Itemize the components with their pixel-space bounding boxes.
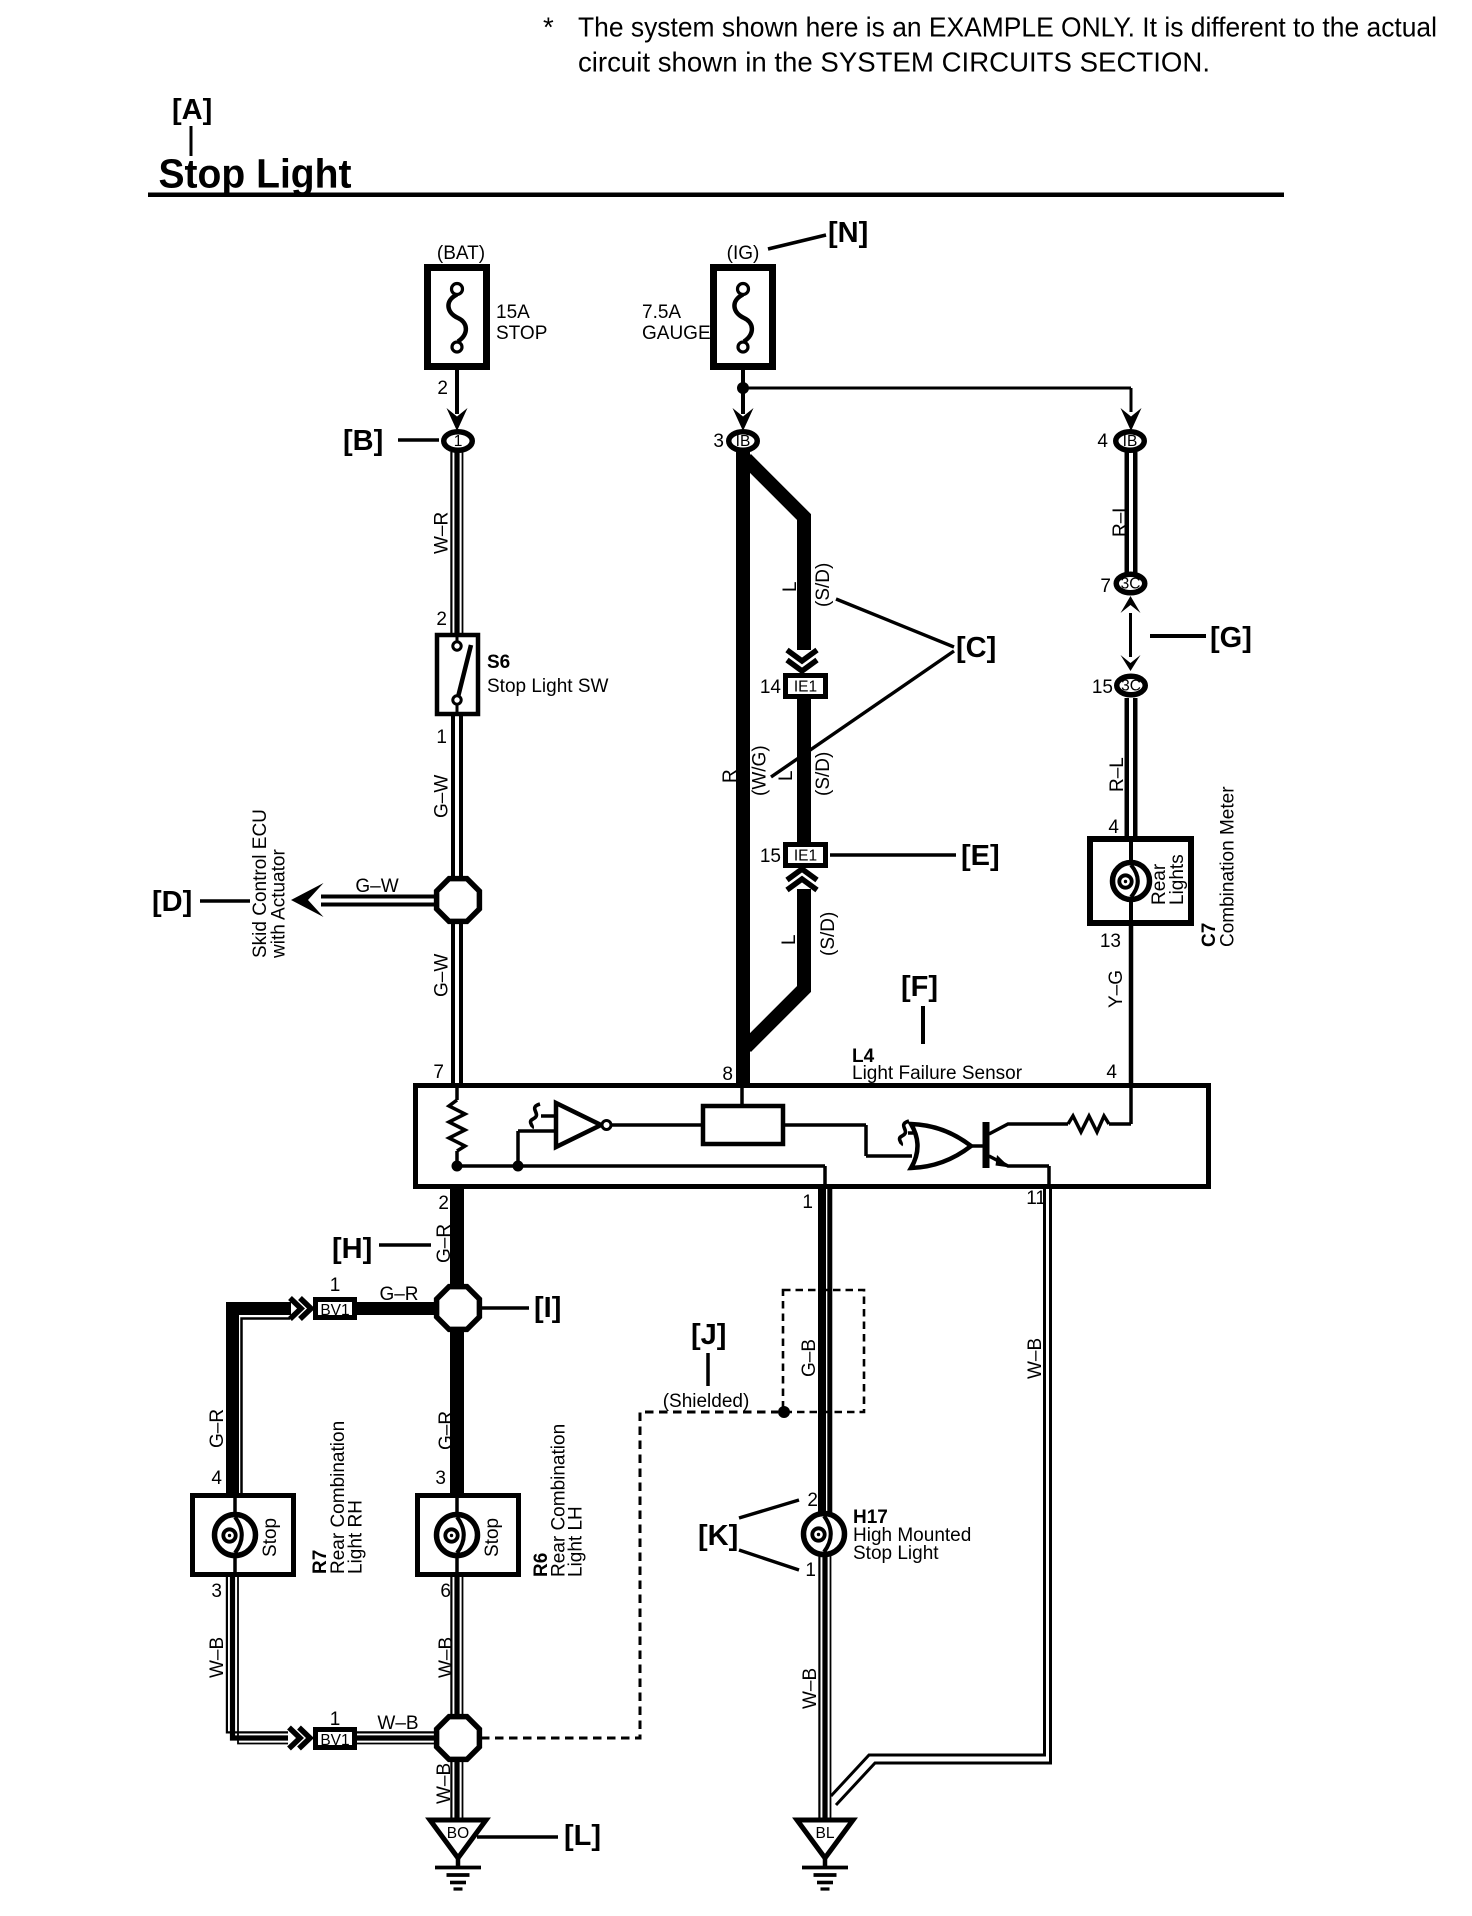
connector IE1 pin 14 xyxy=(760,676,826,699)
label [H] xyxy=(332,1233,431,1265)
svg-text:1: 1 xyxy=(330,1275,341,1296)
svg-text:3: 3 xyxy=(713,431,724,452)
svg-text:2: 2 xyxy=(807,1490,818,1511)
comparator (NOT gate) U1 xyxy=(518,1103,611,1166)
svg-text:W–B: W–B xyxy=(800,1668,821,1709)
rear combination light RH R7 (Stop bulb) xyxy=(193,1421,367,1575)
svg-text:(S/D): (S/D) xyxy=(813,563,834,607)
OR gate U2 xyxy=(900,1121,971,1168)
svg-text:G–B: G–B xyxy=(799,1339,820,1377)
svg-text:1: 1 xyxy=(436,727,447,748)
svg-text:(Shielded): (Shielded) xyxy=(663,1391,750,1412)
junction octagon I xyxy=(437,1287,480,1330)
svg-text:W–B: W–B xyxy=(434,1763,455,1804)
svg-text:G–W: G–W xyxy=(432,775,453,818)
svg-text:S6: S6 xyxy=(487,652,510,673)
label [E] xyxy=(830,840,1000,872)
arrow (double chevron) up into IE1 pin 15 xyxy=(787,879,817,890)
connector BV1 pin 1 (lower) xyxy=(316,1709,355,1749)
svg-text:W–B: W–B xyxy=(1025,1338,1046,1379)
logic block (rectangle) xyxy=(703,1088,783,1144)
light failure sensor L4 box xyxy=(416,1086,1209,1187)
svg-text:13: 13 xyxy=(1100,931,1121,952)
svg-text:1: 1 xyxy=(330,1709,341,1730)
ground junction octagon xyxy=(437,1717,480,1760)
svg-text:Light LH: Light LH xyxy=(566,1506,587,1577)
svg-text:Stop: Stop xyxy=(482,1518,503,1557)
connector 3C pin 7 xyxy=(1116,574,1145,593)
label [F] xyxy=(901,971,938,1044)
svg-text:Lights: Lights xyxy=(1167,854,1188,905)
svg-text:3: 3 xyxy=(435,1468,446,1489)
shield junction dot xyxy=(778,1406,790,1418)
transistor Q1 xyxy=(969,1122,1068,1186)
rear combination light LH R6 (Stop bulb) xyxy=(418,1424,587,1577)
svg-text:6: 6 xyxy=(440,1581,451,1602)
svg-text:W–B: W–B xyxy=(436,1637,457,1678)
svg-text:W–R: W–R xyxy=(432,512,453,554)
svg-text:(BAT): (BAT) xyxy=(437,243,485,264)
svg-text:[C]: [C] xyxy=(956,632,996,664)
wire G-R sensor pin 2 to octagon I xyxy=(434,1186,457,1286)
arrow down at 3C pin 15 xyxy=(1121,655,1141,671)
junction dot bottom rail left xyxy=(452,1161,463,1172)
label [J] (Shielded) xyxy=(663,1319,750,1412)
svg-text:R–L: R–L xyxy=(1110,502,1131,537)
svg-text:[J]: [J] xyxy=(691,1319,726,1351)
svg-text:[E]: [E] xyxy=(961,840,1000,872)
arrow (double chevron) into IE1 pin 14 xyxy=(787,650,817,661)
svg-text:R: R xyxy=(720,769,741,783)
label [I] xyxy=(482,1292,561,1324)
label [D] xyxy=(152,886,250,918)
svg-text:circuit shown in the SYSTEM CI: circuit shown in the SYSTEM CIRCUITS SEC… xyxy=(578,47,1210,78)
wire logic block to OR gate xyxy=(785,1123,866,1127)
svg-text:*: * xyxy=(543,12,554,43)
arrow chevrons into BV1 (lower) xyxy=(289,1728,300,1749)
wire W-B BV1 to ground octagon xyxy=(357,1713,437,1744)
arrow into connector 1 xyxy=(447,408,468,431)
svg-text:IB: IB xyxy=(1123,433,1138,450)
switch S6 Stop Light SW xyxy=(437,635,609,714)
wire fuse STOP pin 2 to connector 1 xyxy=(437,370,457,414)
svg-text:G–R: G–R xyxy=(207,1409,228,1448)
label [N] xyxy=(768,217,868,249)
svg-text:G–R: G–R xyxy=(436,1411,457,1450)
wire L (S/D) lower loop branch xyxy=(746,889,839,1047)
wire junction to right branch xyxy=(743,387,1131,390)
wire W-B R7 to BV1 (lower) xyxy=(207,1577,288,1744)
label [C] with pointer lines xyxy=(771,599,996,777)
svg-text:W–B: W–B xyxy=(377,1713,418,1734)
wire Y-G C7 to sensor pin 4 xyxy=(1106,923,1131,1084)
svg-text:Light Failure Sensor: Light Failure Sensor xyxy=(852,1063,1023,1084)
svg-text:(S/D): (S/D) xyxy=(813,752,834,796)
svg-text:L: L xyxy=(779,934,800,945)
wire W-R connector 1 to stop light switch xyxy=(432,452,463,634)
svg-text:G–W: G–W xyxy=(432,954,453,997)
ground BL xyxy=(797,1820,853,1858)
svg-text:with Actuator: with Actuator xyxy=(269,849,290,959)
svg-text:IB: IB xyxy=(736,433,751,450)
svg-text:15: 15 xyxy=(760,846,781,867)
shield drain dashed wire xyxy=(481,1412,778,1738)
svg-text:[I]: [I] xyxy=(534,1292,561,1324)
svg-text:2: 2 xyxy=(437,378,448,399)
svg-text:1: 1 xyxy=(454,433,463,450)
bottom rail to pin 1 xyxy=(457,1164,825,1168)
svg-text:15A: 15A xyxy=(496,302,530,323)
high mounted stop light H17 xyxy=(804,1507,972,1564)
wire W-B octagon to ground BO xyxy=(434,1760,463,1820)
arrow chevrons into BV1 xyxy=(290,1298,301,1319)
wire G-W arrow to Skid Control ECU xyxy=(250,809,436,959)
svg-text:Stop Light: Stop Light xyxy=(159,151,352,197)
fuse 15A STOP (BAT) xyxy=(428,243,548,367)
svg-text:IE1: IE1 xyxy=(794,679,817,696)
svg-text:Combination Meter: Combination Meter xyxy=(1218,786,1239,947)
wire fuse GAUGE to connector IB xyxy=(741,370,745,414)
wire G-B sensor pin 1 to H17 xyxy=(799,1186,830,1515)
svg-text:3: 3 xyxy=(211,1581,222,1602)
svg-text:Light RH: Light RH xyxy=(346,1500,367,1574)
svg-text:[K]: [K] xyxy=(698,1520,738,1552)
svg-text:The system shown here is an EX: The system shown here is an EXAMPLE ONLY… xyxy=(578,12,1437,43)
svg-text:(S/D): (S/D) xyxy=(818,912,839,956)
svg-text:BO: BO xyxy=(447,1825,469,1842)
svg-text:7.5A: 7.5A xyxy=(642,302,681,323)
resistor (sensing) at pin 7 xyxy=(449,1088,465,1166)
shield dashed box xyxy=(783,1290,864,1412)
svg-text:8: 8 xyxy=(722,1064,733,1085)
wire W-B R6 to ground octagon xyxy=(436,1577,463,1716)
svg-text:4: 4 xyxy=(1097,431,1108,452)
svg-text:1: 1 xyxy=(805,1560,816,1581)
svg-text:BV1: BV1 xyxy=(320,1302,349,1319)
svg-text:(IG): (IG) xyxy=(727,243,760,264)
svg-text:4: 4 xyxy=(211,1468,222,1489)
junction dot below IG fuse xyxy=(737,382,749,394)
wire G-R octagon I to R6 xyxy=(436,1330,457,1494)
svg-text:[A]: [A] xyxy=(172,94,212,126)
ground BO xyxy=(430,1820,486,1858)
svg-text:R–L: R–L xyxy=(1107,757,1128,792)
svg-text:2: 2 xyxy=(436,609,447,630)
arrow up at 3C pin 7 xyxy=(1121,596,1141,613)
svg-text:4: 4 xyxy=(1106,1062,1117,1083)
connector IE1 pin 15 xyxy=(760,845,826,868)
wire L (S/D) between IE1 connectors xyxy=(750,699,835,843)
connector IB pin 3 xyxy=(729,432,758,451)
wire R (thick) IB to sensor pin 8 xyxy=(720,452,743,1084)
svg-text:W–B: W–B xyxy=(207,1637,228,1678)
connector IB pin 4 xyxy=(1116,432,1145,451)
svg-text:STOP: STOP xyxy=(496,323,547,344)
svg-text:L: L xyxy=(780,581,801,592)
wire G-R octagon to BV1 xyxy=(357,1284,437,1309)
svg-text:Stop Light SW: Stop Light SW xyxy=(487,676,609,697)
wire W-B sensor pin 11 to ground BL xyxy=(831,1186,1051,1805)
arrow into connector IB (4) xyxy=(1121,408,1142,431)
wire G-W octagon to sensor pin 7 xyxy=(432,922,462,1084)
arrow into connector IB (3) xyxy=(733,408,754,431)
connector BV1 pin 1 (upper) xyxy=(316,1275,355,1319)
junction octagon (stop light feed) xyxy=(437,879,480,922)
svg-text:(W/G): (W/G) xyxy=(750,745,771,796)
svg-text:G–W: G–W xyxy=(355,876,398,897)
svg-text:BL: BL xyxy=(816,1825,835,1842)
label [G] xyxy=(1150,622,1252,654)
svg-text:3C: 3C xyxy=(1121,576,1141,593)
svg-text:G–R: G–R xyxy=(434,1224,455,1263)
wire between 3C connectors xyxy=(1129,613,1132,657)
label [K] with pointer lines xyxy=(698,1500,799,1570)
svg-text:[L]: [L] xyxy=(564,1820,601,1852)
wire L (S/D) upper loop branch xyxy=(746,459,834,650)
junction dot comparator input xyxy=(513,1161,524,1172)
svg-text:7: 7 xyxy=(433,1062,444,1083)
wire R-L 3C to combination meter xyxy=(1107,698,1135,837)
svg-text:7: 7 xyxy=(1100,576,1111,597)
svg-text:[N]: [N] xyxy=(828,217,868,249)
svg-text:Stop Light: Stop Light xyxy=(853,1543,939,1564)
svg-text:1: 1 xyxy=(802,1192,813,1213)
label [B] xyxy=(343,425,439,457)
svg-text:4: 4 xyxy=(1108,817,1119,838)
label [L] xyxy=(477,1820,601,1852)
connector 1 (B) xyxy=(444,432,473,451)
resistor at pin 4 xyxy=(1068,1088,1131,1132)
svg-text:Stop: Stop xyxy=(260,1518,281,1557)
fuse 7.5A GAUGE (IG) xyxy=(642,243,773,367)
connector 3C pin 15 xyxy=(1117,676,1146,695)
wire G-W switch to junction octagon xyxy=(432,716,462,879)
combination meter C7 with Rear Lights bulb xyxy=(1090,786,1239,947)
wire NOT output to logic block xyxy=(611,1123,701,1127)
svg-text:Y–G: Y–G xyxy=(1106,970,1127,1008)
svg-text:[D]: [D] xyxy=(152,886,192,918)
svg-text:BV1: BV1 xyxy=(320,1732,349,1749)
svg-text:3C: 3C xyxy=(1121,678,1141,695)
svg-text:IE1: IE1 xyxy=(794,848,817,865)
L4 Light Failure Sensor label xyxy=(852,1046,1023,1084)
svg-text:[G]: [G] xyxy=(1210,622,1252,654)
svg-text:2: 2 xyxy=(438,1193,449,1214)
svg-text:GAUGE: GAUGE xyxy=(642,323,711,344)
svg-text:15: 15 xyxy=(1092,677,1113,698)
svg-text:G–R: G–R xyxy=(379,1284,418,1305)
wire G-R corner to R7 xyxy=(207,1309,291,1495)
wire R-L IB to 3C pin 7 xyxy=(1110,452,1135,573)
svg-text:14: 14 xyxy=(760,677,782,698)
svg-text:[F]: [F] xyxy=(901,971,938,1003)
svg-text:[B]: [B] xyxy=(343,425,383,457)
svg-text:[H]: [H] xyxy=(332,1233,372,1265)
wire W-B H17 to ground BL xyxy=(800,1555,831,1818)
